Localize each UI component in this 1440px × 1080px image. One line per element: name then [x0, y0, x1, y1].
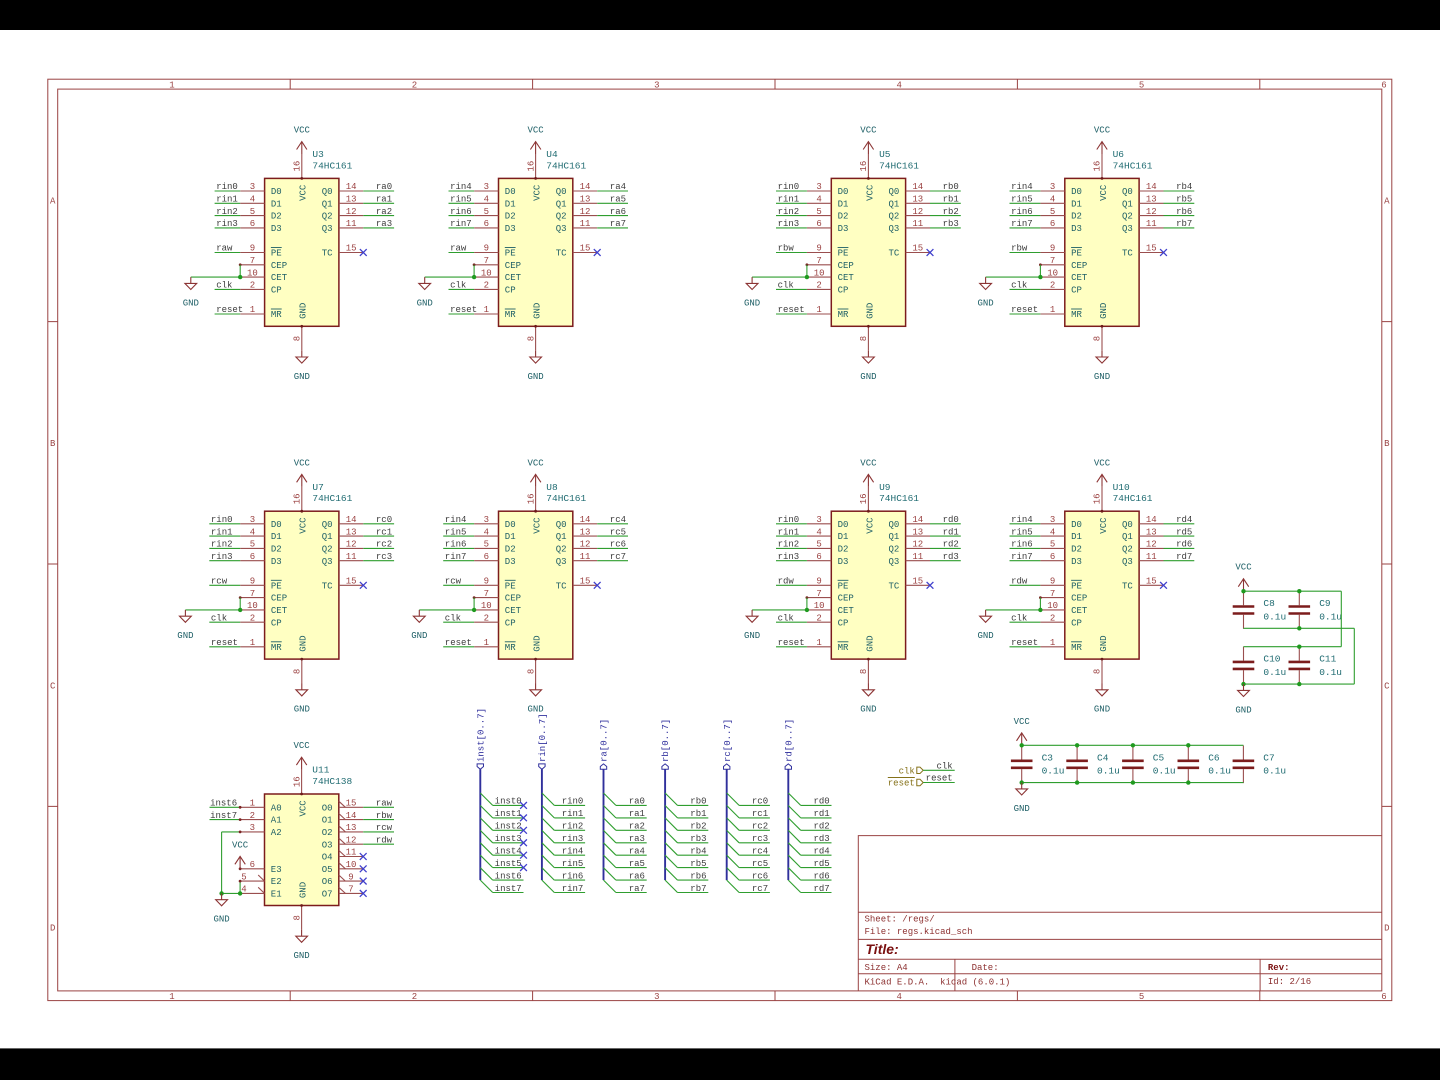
pin 13 Q1 of U8 — [556, 527, 598, 542]
bus entry rb1 — [665, 806, 677, 818]
svg-text:10: 10 — [481, 268, 492, 278]
svg-text:4: 4 — [896, 992, 901, 1002]
svg-text:ra7: ra7 — [629, 884, 645, 894]
pin 1 MR of U4 — [474, 305, 516, 320]
capacitor C8 0.1u — [1233, 591, 1255, 629]
wire rin3 to U9.D3 — [776, 560, 807, 562]
wire U11.A2 to GND net — [222, 831, 241, 833]
pin 6 E3 of U11 — [240, 860, 282, 875]
power symbol GND at U11 E1/E2/A2 — [213, 893, 229, 924]
IC U6 74HC161 body — [1065, 178, 1139, 326]
svg-text:rd3: rd3 — [813, 834, 829, 844]
no-connect U11.O6 — [360, 878, 367, 885]
wire U8.Q1 to rc5 — [597, 535, 628, 537]
pin 9 PE of U7 — [240, 577, 282, 592]
wire rd4 — [801, 854, 832, 856]
svg-text:12: 12 — [346, 540, 357, 550]
hierarchical label rd[0..7] — [784, 719, 794, 770]
svg-text:8: 8 — [1093, 336, 1103, 341]
wire GND rail C8-C9 bottom — [1244, 627, 1355, 629]
power symbol VCC at U5 pin16 — [860, 126, 877, 155]
bus entry rc1 — [727, 806, 739, 818]
svg-text:clk: clk — [1011, 281, 1027, 291]
power symbol VCC at U11 pin16 — [293, 741, 310, 770]
svg-text:2: 2 — [1050, 281, 1055, 291]
svg-text:reset: reset — [445, 638, 472, 648]
svg-text:ra7: ra7 — [610, 219, 626, 229]
svg-text:inst[0..7]: inst[0..7] — [476, 708, 486, 762]
svg-text:reset: reset — [1011, 305, 1038, 315]
junction — [1297, 682, 1301, 686]
svg-text:Q2: Q2 — [322, 212, 333, 222]
svg-text:D3: D3 — [505, 557, 516, 567]
svg-text:VCC: VCC — [527, 458, 544, 468]
no-connect U7.TC — [360, 582, 367, 589]
hierarchical label inst[0..7] — [476, 708, 486, 769]
svg-text:12: 12 — [580, 540, 591, 550]
pin 1 A0 of U11 — [240, 799, 282, 814]
svg-text:D3: D3 — [505, 224, 516, 234]
svg-text:rin3: rin3 — [211, 552, 233, 562]
svg-text:Q1: Q1 — [888, 532, 899, 542]
pin 1 MR of U10 — [1040, 638, 1082, 653]
pin joint dots U11 — [300, 793, 303, 796]
svg-text:14: 14 — [346, 811, 357, 821]
wire CEP to CET tie of U6 — [1039, 265, 1041, 277]
svg-text:ra3: ra3 — [376, 219, 392, 229]
wire raw to U3.PE — [215, 252, 241, 254]
svg-text:1: 1 — [250, 305, 255, 315]
svg-text:15: 15 — [346, 799, 357, 809]
svg-text:GND: GND — [860, 372, 876, 382]
pin 7 CEP of U6 — [1040, 256, 1087, 271]
hierarchical label clk — [899, 766, 924, 776]
svg-text:15: 15 — [346, 244, 357, 254]
wire VCC rail C3-C7 — [1022, 744, 1244, 746]
power symbol VCC at U7 pin16 — [294, 458, 311, 487]
svg-text:MR: MR — [1071, 310, 1082, 320]
svg-text:PE: PE — [505, 581, 516, 591]
wire clk to U8.CP — [443, 621, 474, 623]
svg-text:rd0: rd0 — [943, 515, 959, 525]
wire U3.Q3 to ra3 — [363, 227, 394, 229]
wire rdw to U9.PE — [776, 584, 807, 586]
svg-text:rc5: rc5 — [752, 859, 768, 869]
svg-text:clk: clk — [445, 613, 461, 623]
pin 8 GND of U8 — [526, 635, 542, 683]
svg-text:12: 12 — [912, 540, 923, 550]
svg-text:O0: O0 — [322, 803, 333, 813]
svg-text:2: 2 — [250, 811, 255, 821]
svg-text:rin1: rin1 — [778, 527, 800, 537]
svg-text:VCC: VCC — [299, 517, 309, 534]
svg-text:rd0: rd0 — [813, 797, 829, 807]
svg-text:inst0: inst0 — [495, 797, 522, 807]
svg-text:16: 16 — [526, 493, 536, 504]
svg-text:74HC161: 74HC161 — [546, 160, 586, 171]
junction — [1075, 743, 1079, 747]
svg-text:MR: MR — [1071, 643, 1082, 653]
svg-text:rd2: rd2 — [813, 822, 829, 832]
svg-text:11: 11 — [912, 219, 923, 229]
svg-text:5: 5 — [484, 207, 489, 217]
wire rin4 to U8.D0 — [443, 523, 474, 525]
capacitor C7 0.1u — [1233, 746, 1255, 784]
svg-text:rin2: rin2 — [562, 822, 584, 832]
svg-text:GND: GND — [977, 298, 993, 308]
wire VCC rail C8-C9 — [1244, 590, 1342, 592]
hierarchical label rb[0..7] — [661, 719, 671, 770]
svg-text:ra5: ra5 — [629, 859, 645, 869]
pin 11 Q3 of U8 — [556, 552, 598, 567]
pin 9 PE of U5 — [807, 244, 849, 259]
svg-text:ra6: ra6 — [629, 871, 645, 881]
wire ra1 — [616, 817, 647, 819]
wire U8.Q0 to rc4 — [597, 523, 628, 525]
wire rd6 — [801, 879, 832, 881]
wire GND to U10.CET — [986, 609, 1041, 611]
svg-text:rc7: rc7 — [752, 884, 768, 894]
no-connect inst0 — [520, 802, 527, 809]
svg-text:reset: reset — [211, 638, 238, 648]
pin 8 GND of U9 — [859, 635, 875, 683]
wire clk hier to label — [923, 769, 955, 771]
svg-text:8: 8 — [1093, 669, 1103, 674]
svg-text:rin5: rin5 — [562, 859, 584, 869]
svg-text:U7: U7 — [312, 482, 323, 493]
svg-text:rbw: rbw — [1011, 244, 1028, 254]
svg-text:rb0: rb0 — [943, 182, 959, 192]
svg-text:1: 1 — [1050, 305, 1055, 315]
wire U9.Q0 to rd0 — [930, 523, 961, 525]
wire rin5 to U10.D1 — [1010, 535, 1041, 537]
wire rb4 — [678, 854, 709, 856]
wire rin1 to U7.D1 — [209, 535, 240, 537]
svg-text:10: 10 — [247, 601, 258, 611]
svg-text:D1: D1 — [271, 199, 282, 209]
pin 1 MR of U5 — [807, 305, 849, 320]
svg-text:7: 7 — [816, 256, 821, 266]
svg-text:Q1: Q1 — [1122, 199, 1133, 209]
svg-text:11: 11 — [346, 552, 357, 562]
wire rd1 — [801, 817, 832, 819]
wire rin5 to U4.D1 — [449, 202, 475, 204]
wire rail C10-C11 bottom — [1244, 683, 1355, 685]
svg-text:C10: C10 — [1263, 653, 1280, 664]
pin 2 CP of U3 — [240, 281, 282, 296]
no-connect U6.TC — [1160, 249, 1167, 256]
pin 10 CET of U6 — [1040, 268, 1088, 283]
wire U5.Q3 to rb3 — [930, 227, 961, 229]
svg-text:2: 2 — [816, 281, 821, 291]
svg-text:rdw: rdw — [376, 835, 393, 845]
pin 1 MR of U7 — [240, 638, 282, 653]
svg-text:rin1: rin1 — [216, 195, 238, 205]
svg-text:13: 13 — [580, 195, 591, 205]
svg-text:Q2: Q2 — [888, 545, 899, 555]
wire rail C10-C11 top — [1244, 646, 1342, 648]
svg-text:16: 16 — [526, 161, 536, 172]
bus inst[0..7] vertical — [479, 769, 481, 880]
pin 7 CEP of U8 — [474, 589, 521, 604]
svg-text:5: 5 — [1050, 540, 1055, 550]
pin 2 CP of U8 — [474, 613, 516, 628]
svg-text:reset: reset — [778, 305, 805, 315]
svg-text:14: 14 — [1146, 515, 1157, 525]
svg-text:Q2: Q2 — [322, 545, 333, 555]
svg-text:rin[0..7]: rin[0..7] — [538, 713, 548, 762]
svg-text:D3: D3 — [271, 557, 282, 567]
svg-text:Q0: Q0 — [322, 187, 333, 197]
pin 10 CET of U9 — [807, 601, 855, 616]
power symbol GND at U9 pin8 — [860, 684, 876, 715]
svg-text:VCC: VCC — [860, 126, 877, 136]
svg-text:rd[0..7]: rd[0..7] — [784, 719, 794, 762]
svg-text:GND: GND — [417, 298, 433, 308]
svg-text:rin2: rin2 — [778, 540, 800, 550]
pin 9 PE of U4 — [474, 244, 516, 259]
svg-text:13: 13 — [912, 195, 923, 205]
svg-text:O2: O2 — [322, 828, 333, 838]
svg-text:D1: D1 — [838, 532, 849, 542]
wire rd0 — [801, 804, 832, 806]
svg-text:A1: A1 — [271, 816, 282, 826]
wire U10.Q2 to rd6 — [1164, 547, 1195, 549]
svg-text:clk: clk — [936, 762, 952, 772]
wire rin6 to U6.D2 — [1010, 215, 1041, 217]
svg-text:2: 2 — [412, 992, 417, 1002]
wire ra3 — [616, 842, 647, 844]
pin 2 CP of U6 — [1040, 281, 1082, 296]
bus entry rb4 — [665, 843, 677, 855]
svg-text:Q1: Q1 — [556, 199, 567, 209]
wire rin0 to U9.D0 — [776, 523, 807, 525]
svg-text:VCC: VCC — [1099, 517, 1109, 534]
svg-text:CEP: CEP — [505, 594, 521, 604]
bus entry rc5 — [727, 855, 739, 867]
svg-text:GND: GND — [860, 705, 876, 715]
pin 4 D1 of U10 — [1040, 527, 1082, 542]
svg-text:6: 6 — [250, 860, 255, 870]
bus entry rc2 — [727, 818, 739, 830]
pin 5 D2 of U4 — [474, 207, 516, 222]
svg-text:D1: D1 — [505, 199, 516, 209]
svg-text:VCC: VCC — [533, 517, 543, 534]
bus entry inst0 — [480, 793, 492, 805]
svg-text:6: 6 — [250, 552, 255, 562]
svg-text:rcw: rcw — [445, 577, 462, 587]
wire rb2 — [678, 829, 709, 831]
svg-text:O3: O3 — [322, 840, 333, 850]
junction — [1241, 682, 1245, 686]
svg-text:U4: U4 — [546, 149, 558, 160]
svg-text:rin0: rin0 — [216, 182, 238, 192]
svg-text:1: 1 — [484, 638, 489, 648]
bus entry inst5 — [480, 855, 492, 867]
svg-text:rc0: rc0 — [376, 515, 392, 525]
junction at U3.CET — [238, 275, 242, 279]
pin 7 CEP of U9 — [807, 589, 854, 604]
svg-text:rc0: rc0 — [752, 797, 768, 807]
pin 14 Q0 of U6 — [1122, 182, 1164, 197]
svg-text:rbw: rbw — [376, 811, 393, 821]
bus entry rb2 — [665, 818, 677, 830]
bus entry rd4 — [788, 843, 800, 855]
junction at U8.CET — [472, 608, 476, 612]
svg-text:D: D — [50, 924, 55, 934]
pin 4 D1 of U7 — [240, 527, 282, 542]
pin 15 TC of U6 — [1122, 244, 1164, 259]
power symbol GND at C10 — [1235, 684, 1251, 715]
svg-text:rb4: rb4 — [690, 846, 706, 856]
svg-text:reset: reset — [926, 774, 953, 784]
svg-text:VCC: VCC — [1094, 458, 1111, 468]
svg-text:5: 5 — [816, 207, 821, 217]
svg-text:7: 7 — [348, 885, 353, 895]
wire U8.Q2 to rc6 — [597, 547, 628, 549]
power symbol GND at U3 CET — [183, 277, 199, 308]
svg-text:0.1u: 0.1u — [1097, 766, 1120, 777]
svg-text:KiCad E.D.A. kicad (6.0.1): KiCad E.D.A. kicad (6.0.1) — [865, 978, 1011, 988]
hierarchical label reset — [888, 778, 923, 789]
power symbol GND at U5 pin8 — [860, 351, 876, 382]
svg-text:3: 3 — [816, 182, 821, 192]
IC U10 74HC161 body — [1065, 511, 1139, 659]
svg-text:rd5: rd5 — [813, 859, 829, 869]
svg-text:10: 10 — [346, 860, 357, 870]
pin 9 PE of U6 — [1040, 244, 1082, 259]
svg-text:0.1u: 0.1u — [1263, 611, 1286, 622]
wire U11.O1 to rbw — [363, 819, 394, 821]
svg-text:E1: E1 — [271, 890, 282, 900]
svg-text:rd1: rd1 — [813, 809, 829, 819]
junction — [1075, 780, 1079, 784]
svg-text:GND: GND — [1099, 635, 1109, 651]
pin 5 D2 of U7 — [240, 540, 282, 555]
svg-text:Title:: Title: — [866, 941, 899, 957]
svg-text:TC: TC — [888, 581, 899, 591]
svg-text:11: 11 — [580, 219, 591, 229]
svg-text:inst5: inst5 — [495, 859, 522, 869]
svg-text:8: 8 — [292, 915, 302, 920]
no-connect U10.TC — [1160, 582, 1167, 589]
svg-text:rin4: rin4 — [1011, 515, 1033, 525]
svg-text:VCC: VCC — [1099, 184, 1109, 201]
wire rin4 to U10.D0 — [1010, 523, 1041, 525]
wire U10.Q1 to rd5 — [1164, 535, 1195, 537]
wire rb1 — [678, 817, 709, 819]
svg-text:1: 1 — [250, 799, 255, 809]
svg-text:reset: reset — [778, 638, 805, 648]
pin 2 CP of U9 — [807, 613, 849, 628]
svg-text:14: 14 — [1146, 182, 1157, 192]
wire rb3 — [678, 842, 709, 844]
svg-text:rb5: rb5 — [1176, 195, 1192, 205]
svg-text:D0: D0 — [1071, 520, 1082, 530]
wire rin1 to U3.D1 — [215, 202, 241, 204]
svg-text:reset: reset — [450, 305, 477, 315]
svg-text:12: 12 — [1146, 540, 1157, 550]
bus entry rd7 — [788, 880, 800, 892]
svg-text:rb2: rb2 — [943, 207, 959, 217]
svg-text:12: 12 — [346, 835, 357, 845]
svg-text:D2: D2 — [505, 212, 516, 222]
svg-text:rd4: rd4 — [813, 846, 829, 856]
pin 9 O6 of U11 — [322, 872, 364, 887]
svg-text:rd2: rd2 — [943, 540, 959, 550]
pin 3 D0 of U7 — [240, 515, 282, 530]
svg-text:inst2: inst2 — [495, 822, 522, 832]
svg-text:A2: A2 — [271, 828, 282, 838]
svg-text:Q2: Q2 — [1122, 545, 1133, 555]
wire U11.O3 to rdw — [363, 843, 394, 845]
pin 7 CEP of U3 — [240, 256, 287, 271]
svg-text:74HC161: 74HC161 — [879, 493, 919, 504]
svg-text:rb3: rb3 — [690, 834, 706, 844]
bus rd[0..7] vertical — [787, 769, 789, 880]
pin 10 O5 of U11 — [322, 860, 364, 875]
wire reset to U9.MR — [776, 646, 807, 648]
wire ra4 — [616, 854, 647, 856]
svg-text:A: A — [1384, 197, 1390, 207]
pin 5 D2 of U9 — [807, 540, 849, 555]
pin 10 CET of U5 — [807, 268, 855, 283]
svg-text:D2: D2 — [271, 212, 282, 222]
svg-text:16: 16 — [292, 493, 302, 504]
svg-text:16: 16 — [292, 161, 302, 172]
svg-text:6: 6 — [816, 552, 821, 562]
pin 3 D0 of U10 — [1040, 515, 1082, 530]
power symbol VCC at C3 — [1014, 717, 1031, 746]
svg-text:4: 4 — [1050, 195, 1055, 205]
pin 13 Q1 of U3 — [322, 195, 364, 210]
svg-text:GND: GND — [744, 631, 760, 641]
svg-text:PE: PE — [1071, 581, 1082, 591]
hierarchical label rin[0..7] — [538, 713, 548, 769]
pin 13 Q1 of U9 — [888, 527, 930, 542]
IC U5 74HC161 body — [831, 178, 905, 326]
wire clk to U10.CP — [1010, 621, 1041, 623]
svg-text:D3: D3 — [1071, 224, 1082, 234]
svg-text:2: 2 — [484, 613, 489, 623]
svg-text:inst7: inst7 — [495, 884, 522, 894]
svg-text:6: 6 — [1050, 552, 1055, 562]
svg-text:CET: CET — [1071, 606, 1088, 616]
title block — [858, 836, 1382, 991]
wire rin7 — [554, 892, 585, 894]
svg-text:rin3: rin3 — [778, 219, 800, 229]
svg-text:8: 8 — [292, 336, 302, 341]
pin 10 CET of U4 — [474, 268, 522, 283]
svg-text:ra1: ra1 — [629, 809, 645, 819]
svg-text:6: 6 — [1050, 219, 1055, 229]
svg-text:15: 15 — [1146, 244, 1157, 254]
svg-text:D0: D0 — [1071, 187, 1082, 197]
pin 7 CEP of U4 — [474, 256, 521, 271]
svg-text:13: 13 — [580, 527, 591, 537]
pin 14 Q0 of U4 — [556, 182, 598, 197]
bus entry ra1 — [604, 806, 616, 818]
svg-text:1: 1 — [169, 80, 174, 90]
pin 11 Q3 of U4 — [556, 219, 598, 234]
svg-text:3: 3 — [250, 182, 255, 192]
svg-text:12: 12 — [346, 207, 357, 217]
pin 4 D1 of U8 — [474, 527, 516, 542]
svg-text:rin2: rin2 — [778, 207, 800, 217]
wire rd7 — [801, 892, 832, 894]
svg-text:MR: MR — [271, 643, 282, 653]
pin 8 GND of U11 — [292, 882, 308, 930]
